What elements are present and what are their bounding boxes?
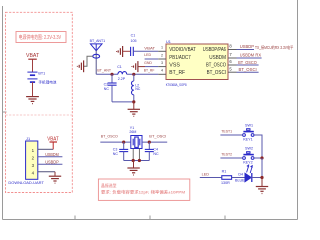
- svg-text:KEY1: KEY1: [243, 137, 252, 141]
- svg-text:电源供电范围: 2.2V-3.3V: 电源供电范围: 2.2V-3.3V: [19, 34, 62, 41]
- wire GND to pin3: [145, 66, 158, 68]
- svg-text:VSS: VSS: [169, 62, 180, 68]
- svg-text:BT1: BT1: [38, 72, 45, 76]
- ground buttons: [261, 178, 263, 187]
- wire matching bottom rail: [112, 101, 134, 103]
- junction node crystal left: [122, 141, 125, 144]
- wire TEST2: [220, 157, 242, 159]
- svg-text:NC: NC: [135, 87, 141, 91]
- svg-text:BT_OSCO: BT_OSCO: [238, 60, 257, 65]
- svg-text:KT6368A_SOP8: KT6368A_SOP8: [166, 83, 187, 87]
- svg-text:D4: D4: [238, 172, 243, 176]
- svg-text:3: 3: [161, 61, 163, 65]
- junction node bus SW2: [260, 156, 263, 159]
- svg-text:2: 2: [161, 53, 163, 57]
- svg-text:C1: C1: [131, 33, 136, 37]
- wire BT_OSCI pin5: [237, 71, 259, 73]
- wire USBDP pin8: [237, 49, 255, 51]
- wire SW2 to bus: [254, 157, 262, 159]
- battery BT1: [27, 72, 37, 82]
- note box power range: [16, 32, 66, 43]
- capacitor C4 NC: [148, 142, 150, 149]
- wire J1 pin4: [38, 171, 55, 173]
- svg-text:BT_RF: BT_RF: [144, 69, 155, 73]
- svg-text:NC: NC: [153, 152, 159, 156]
- wire BT_OSCO to crystal: [100, 141, 131, 143]
- svg-text:BT_OSCI: BT_OSCI: [207, 70, 226, 76]
- svg-text:DOWNLOAD-UART: DOWNLOAD-UART: [8, 180, 44, 185]
- svg-text:C2: C2: [104, 82, 109, 86]
- svg-text:C3: C3: [113, 147, 118, 151]
- wire LED row: [200, 177, 222, 179]
- junction node crystal right: [148, 141, 151, 144]
- svg-text:C4: C4: [153, 147, 158, 151]
- pin names right: [203, 47, 226, 76]
- svg-text:晶振选型: 晶振选型: [101, 182, 117, 188]
- pin stubs left: [158, 51, 166, 74]
- ground matching network: [133, 102, 135, 109]
- ground sideways for VSS: [132, 61, 138, 72]
- dashed divider line: [6, 114, 73, 116]
- wire SW1 to bus: [254, 135, 262, 158]
- svg-text:SW2: SW2: [245, 147, 253, 151]
- wire VBAT to pin1: [133, 50, 158, 52]
- junction node bus LED: [260, 176, 263, 179]
- capacitor C2 NC shunt: [111, 74, 113, 83]
- capacitor C3 NC: [123, 142, 125, 149]
- inductor L2 NC shunt: [132, 81, 134, 95]
- wire BT_OSCO pin6: [237, 64, 259, 66]
- svg-text:USBDM: USBDM: [209, 55, 226, 61]
- svg-text:USBDP: USBDP: [240, 44, 254, 49]
- svg-text:2.2P: 2.2P: [118, 77, 126, 81]
- svg-text:VBAT: VBAT: [144, 46, 156, 50]
- wire USBDM pin7: [237, 57, 262, 59]
- note box crystal: [98, 179, 189, 200]
- svg-text:BLUE: BLUE: [235, 178, 245, 182]
- capacitor C5 104: [131, 47, 134, 56]
- svg-text:TEST1: TEST1: [221, 129, 232, 134]
- antenna feed ellipse: [93, 54, 100, 58]
- svg-text:BT_OSCI: BT_OSCI: [149, 134, 166, 138]
- svg-text:R1: R1: [222, 169, 227, 173]
- wire J1 pin3 net USBDP: [38, 163, 63, 165]
- wire antenna down: [95, 51, 97, 75]
- junction nodes crystal rail: [132, 159, 135, 162]
- wire battery to ground: [32, 82, 34, 96]
- wire LED to bus: [251, 177, 262, 179]
- wire bus down: [261, 158, 263, 179]
- power port VBAT J1: [52, 142, 54, 149]
- svg-text:USBDP: USBDP: [45, 159, 59, 164]
- svg-text:NC: NC: [104, 87, 110, 91]
- svg-text:要求: 负载电容要求12pF, 频率偏差±10PPM: 要求: 负载电容要求12pF, 频率偏差±10PPM: [101, 189, 185, 195]
- ground antenna sideways: [77, 60, 83, 72]
- svg-text:26M: 26M: [129, 130, 136, 134]
- wire crystal to BT_OSCI: [142, 141, 167, 143]
- svg-text:J1: J1: [26, 136, 30, 141]
- dashed note box battery and download section: [6, 12, 73, 192]
- junction node matching ground: [132, 100, 135, 103]
- wire LED to pin2: [145, 58, 159, 60]
- svg-text:BT_OSCO: BT_OSCO: [206, 62, 226, 68]
- ground battery: [26, 97, 39, 104]
- svg-text:NC: NC: [113, 152, 119, 156]
- svg-text:BT_OSCO: BT_OSCO: [101, 134, 118, 138]
- svg-text:VDDIO/VBAT: VDDIO/VBAT: [169, 47, 196, 53]
- svg-text:USBDP/PA6: USBDP/PA6: [203, 47, 226, 53]
- svg-text:KEY2: KEY2: [243, 160, 252, 164]
- wire antenna tap to ground: [84, 56, 93, 66]
- ground crystal: [133, 161, 135, 168]
- svg-text:BT_ANT1: BT_ANT1: [90, 39, 106, 43]
- svg-text:105: 105: [131, 39, 137, 43]
- junction node RF: [132, 73, 135, 76]
- svg-text:手机锂电池: 手机锂电池: [38, 79, 56, 84]
- crystal case leads: [132, 149, 134, 161]
- svg-text:TEST2: TEST2: [221, 152, 232, 157]
- pin stubs right: [228, 50, 237, 73]
- ground J1: [54, 172, 56, 176]
- wire J1 pin1: [38, 148, 53, 150]
- ground sideways for C5: [117, 46, 123, 57]
- svg-text:USBDM: USBDM: [45, 152, 59, 157]
- svg-text:VBAT: VBAT: [47, 137, 58, 143]
- wire TEST1: [220, 134, 242, 136]
- svg-text:130R: 130R: [221, 181, 230, 185]
- svg-text:LED: LED: [144, 53, 151, 57]
- svg-text:RX: RX: [255, 52, 261, 57]
- svg-text:TX_接MCU的RX 3.3V电平: TX_接MCU的RX 3.3V电平: [255, 44, 293, 50]
- svg-text:4: 4: [161, 69, 163, 73]
- pin names left: [169, 47, 196, 76]
- wire BT_ANT rail: [96, 73, 118, 75]
- svg-text:PB1/ADC7: PB1/ADC7: [169, 55, 191, 61]
- svg-text:C1: C1: [117, 65, 122, 69]
- wire BT_RF to chip: [127, 73, 159, 75]
- svg-text:BT_RF: BT_RF: [169, 70, 185, 76]
- svg-text:BT_ANT: BT_ANT: [97, 69, 111, 73]
- svg-text:1: 1: [161, 46, 163, 50]
- svg-text:LED: LED: [202, 171, 210, 176]
- svg-text:VBAT: VBAT: [26, 53, 40, 59]
- svg-text:SW1: SW1: [245, 124, 253, 128]
- svg-text:GND: GND: [144, 61, 152, 65]
- svg-text:USBDM: USBDM: [240, 53, 255, 58]
- wire resistor to LED: [232, 177, 245, 179]
- junction node BT_ANT: [110, 73, 113, 76]
- wire J1 pin2 net USBDM: [38, 156, 63, 158]
- wire crystal bottom rail: [124, 160, 150, 162]
- svg-text:BT_OSCI: BT_OSCI: [239, 67, 257, 72]
